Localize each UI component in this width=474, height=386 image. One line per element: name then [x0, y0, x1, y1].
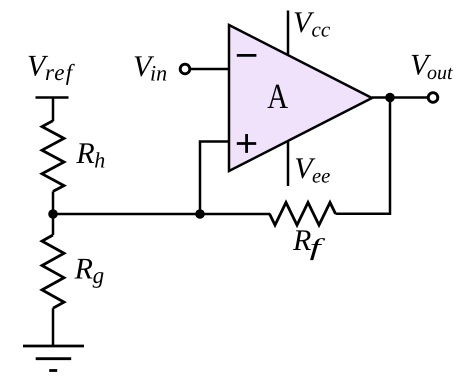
wire op-amp output	[372, 96, 427, 99]
svg-text:cc: cc	[312, 17, 331, 41]
svg-text:h: h	[94, 147, 105, 172]
wire node to Rf (bottom rail)	[53, 213, 270, 216]
svg-text:out: out	[427, 62, 453, 84]
op-amp U1 triangle body	[229, 25, 372, 171]
output junction dot	[385, 93, 395, 103]
svg-text:in: in	[150, 60, 167, 85]
svg-text:R: R	[292, 224, 311, 257]
Vout terminal circle	[428, 93, 438, 103]
wire Rg to ground	[52, 308, 55, 346]
svg-text:ee: ee	[312, 165, 330, 187]
resistor Rf zigzag	[270, 203, 336, 226]
junction dot middle	[195, 209, 205, 219]
wire node to Rg	[52, 214, 55, 235]
ground symbol	[23, 346, 84, 371]
Vcc supply line	[287, 11, 290, 56]
svg-text:R: R	[74, 252, 93, 285]
wire junction up to plus input	[200, 142, 229, 215]
wire output down to Rf	[389, 98, 392, 216]
wire Rh to node	[52, 191, 55, 214]
Vee supply line	[287, 141, 290, 187]
node junction dot left	[48, 209, 58, 219]
resistor Rh zigzag	[42, 121, 64, 192]
resistor Rg zigzag	[42, 235, 64, 308]
svg-text:R: R	[75, 137, 94, 170]
svg-text:g: g	[93, 263, 105, 288]
Vref terminal bar	[36, 96, 69, 99]
wire Vref bar to Rh	[52, 98, 55, 122]
op-amp non-inverting input plus sign	[237, 134, 256, 153]
Vin terminal circle	[180, 64, 190, 74]
wire Vin to inverting input	[190, 68, 229, 71]
svg-text:A: A	[267, 76, 288, 116]
wire Rf to output vertical	[336, 213, 391, 216]
svg-text:ref: ref	[45, 60, 76, 85]
svg-text:f: f	[310, 235, 326, 261]
op-amp inverting input minus sign	[237, 54, 257, 57]
